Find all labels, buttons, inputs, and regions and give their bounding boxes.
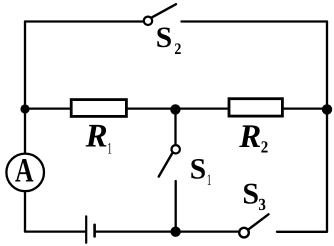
wire middle horizontal row: [25, 107, 327, 109]
wire bottom-middle (battery to S3): [96, 230, 239, 232]
svg-text:2: 2: [174, 41, 181, 58]
node: junction dot center-middle: [170, 104, 180, 114]
battery B1: [86, 216, 94, 242]
wire right vertical: [326, 22, 328, 232]
wire left vertical lower: [24, 191, 26, 231]
svg-text:R: R: [238, 119, 261, 155]
resistor R2: [229, 99, 282, 116]
svg-text:1: 1: [107, 141, 112, 158]
switch S3: [239, 214, 268, 237]
svg-text:3: 3: [258, 195, 266, 214]
svg-text:S: S: [156, 22, 172, 54]
wire center branch lower: [175, 181, 177, 232]
svg-text:1: 1: [207, 172, 212, 189]
wire center branch upper: [174, 109, 176, 145]
svg-text:A: A: [15, 152, 34, 189]
node: junction dot left-middle: [20, 104, 29, 113]
wire top-left horizontal (to S2): [25, 20, 144, 22]
wire top-right horizontal (from S2 to right): [182, 20, 328, 22]
wire bottom-left (to battery): [25, 230, 85, 232]
ammeter A1: [6, 152, 44, 191]
node: junction dot center-bottom: [170, 227, 180, 237]
svg-text:S: S: [242, 178, 259, 211]
switch S2: [144, 4, 176, 25]
svg-text:S: S: [190, 153, 206, 185]
switch S1: [159, 145, 180, 177]
node: junction dot right-middle: [322, 104, 332, 114]
wire left vertical upper: [24, 22, 26, 154]
svg-text:R: R: [85, 119, 108, 155]
svg-text:2: 2: [261, 138, 269, 157]
resistor R1: [71, 100, 126, 117]
wire bottom-right (S3 to right): [277, 231, 327, 233]
